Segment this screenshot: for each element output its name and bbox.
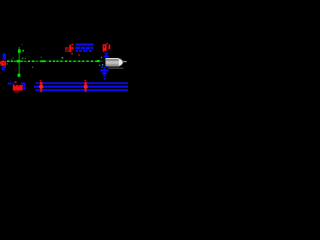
lead wire right	[123, 60, 126, 63]
connector J1 body (red)	[0, 61, 6, 66]
diode D1 reference text (red)	[103, 43, 111, 52]
junction (bright) near cylinder	[97, 60, 99, 62]
node: crossing junction	[17, 60, 21, 63]
wire: main horizontal net	[7, 61, 104, 62]
connector J1 label (blue)	[3, 54, 6, 60]
diode D1 body (cylinder, breadboard style)	[105, 57, 127, 68]
ground symbol below cylinder (blue)	[100, 66, 108, 79]
via/tap 2 on bus (red)	[84, 80, 88, 92]
node: bottom terminal blob	[18, 74, 21, 77]
via/tap 1 on bus (red)	[39, 80, 43, 92]
resistor R5 reference glyphs (red)	[65, 44, 74, 55]
bus B1 line 3	[35, 89, 128, 91]
junction dot right of top terminal	[22, 50, 24, 52]
red speck beside connector label	[5, 66, 6, 67]
stray green speck	[32, 66, 33, 68]
bus name text (red)	[13, 85, 23, 93]
connector J1 label 2 (blue)	[2, 67, 5, 71]
value label line 1 (blue)	[75, 44, 93, 46]
value label line 2 (blue dashes)	[75, 47, 93, 52]
bus label blue dashes (bottom left)	[8, 83, 15, 85]
background	[0, 0, 128, 128]
bus B1 line 1	[35, 82, 128, 84]
red speck above label	[15, 81, 17, 83]
cathode pin marker (cyan)	[102, 64, 103, 65]
bus B1 line 2	[34, 86, 128, 88]
power symbol above cylinder (blue)	[104, 52, 109, 57]
wire: vertical branch	[19, 47, 20, 75]
current dots on wire	[7, 60, 98, 62]
bus label right (blue)	[21, 82, 26, 89]
node: top terminal blob	[18, 49, 21, 52]
shadow under cylinder	[108, 68, 123, 69]
small net label ticks above wire	[7, 54, 103, 66]
faint speck	[21, 44, 22, 45]
anode pin marker (magenta)	[105, 59, 106, 60]
